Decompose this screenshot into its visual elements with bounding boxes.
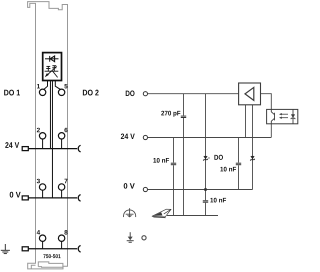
light arrows <box>279 113 288 119</box>
terminal 3 <box>39 184 45 190</box>
wire 24V line <box>148 137 272 139</box>
label DO <box>126 91 130 96</box>
value label 10 nF (C4) <box>210 198 213 203</box>
pin number 1 <box>37 84 40 88</box>
wire amp left supply <box>245 105 247 138</box>
optocoupler U3 box <box>267 109 298 123</box>
LED pair indicator (inside box bottom) <box>45 66 59 78</box>
label 0 V <box>124 183 128 189</box>
rail contact arrow (power jumper) <box>152 209 171 218</box>
pin number 5 <box>64 84 67 88</box>
label DO <box>214 155 218 160</box>
terminal 2 <box>39 133 45 139</box>
wire stub t7 <box>61 190 63 198</box>
0V field row <box>22 195 80 202</box>
wire: internal to 24V row <box>49 81 51 149</box>
terminal rect 24V <box>22 147 28 151</box>
wire: internal to 0V row <box>51 81 53 198</box>
pin number 3 <box>37 179 40 184</box>
wire rail A (24V to earth, 10nF) <box>173 138 175 216</box>
terminal 24V circle <box>143 135 147 139</box>
pin number 4 <box>37 230 40 234</box>
terminal 8 <box>58 235 64 241</box>
value label 10 nF (C3) <box>220 167 223 172</box>
wire stub t8 <box>61 241 63 248</box>
wire: foot left notch <box>31 265 35 269</box>
wire rail C (DO to earth via zener and 10nF) <box>205 94 207 216</box>
pin number 7 <box>64 179 67 183</box>
wire opto to 24V <box>270 124 272 138</box>
label 0 V <box>10 192 14 198</box>
legend: rail arrow symbol <box>127 232 134 242</box>
text labels as paths <box>4 84 236 258</box>
terminal 4 <box>39 235 45 241</box>
zener diode Z1 (rail C) <box>203 156 209 160</box>
op-amp U2 box <box>239 83 261 105</box>
pin number 6 <box>64 128 67 133</box>
capacitor C2 10nF plates <box>171 162 176 164</box>
clamp contact 0V <box>78 195 80 202</box>
wire earth rail <box>167 215 218 217</box>
part number 750_501 <box>43 254 45 258</box>
pin number 2 <box>37 128 40 132</box>
terminal 5 <box>58 89 64 95</box>
terminal 0V circle <box>143 187 147 191</box>
functional earth symbol (circle arc) <box>123 208 135 217</box>
component box U1 (suppressor diode + LEDs) <box>43 53 62 81</box>
capacitor C3 10nF plates <box>236 162 241 164</box>
LED arrowhead <box>45 73 49 77</box>
opto LED <box>291 109 296 123</box>
wire stub t4 <box>42 241 44 248</box>
wire earth row <box>28 248 77 250</box>
wire stub t2 <box>42 139 44 149</box>
terminal 1 <box>39 89 45 95</box>
diode D1 (suppressor, inside box top) <box>45 56 59 62</box>
wire DO line <box>148 93 239 95</box>
pin to terminal 5 <box>55 81 60 90</box>
wire rail D (24V to 0V, 10nF) <box>238 138 240 190</box>
wire rail E (amp to 24V to 0V via zener) <box>252 105 254 190</box>
terminal 6 <box>58 133 64 139</box>
pin number 8 <box>64 230 67 235</box>
wire 0V row <box>28 197 77 199</box>
module outline (grey housing contour) <box>28 2 68 269</box>
terminal circles column <box>39 89 64 241</box>
terminal DO circle <box>143 92 147 96</box>
pin to terminal 1 <box>44 81 48 90</box>
wire: foot inner latch step <box>38 262 63 267</box>
clamp contact earth <box>78 246 80 253</box>
label 24 V <box>5 142 8 148</box>
terminal rect earth <box>22 247 28 251</box>
label 24 V <box>121 134 124 139</box>
wire 24V row <box>28 148 77 150</box>
ground symbol (left of earth row) <box>1 244 10 254</box>
phototransistor <box>271 109 274 123</box>
wire amp output to opto <box>261 94 272 110</box>
legend: small circle <box>142 236 146 240</box>
value label 270 pF (C1) <box>161 111 164 116</box>
zener diode Z2 (rail E) <box>250 156 255 160</box>
capacitor C4 10nF plates <box>203 200 208 202</box>
wire stub t3 <box>42 190 44 198</box>
stubs terminals to rows <box>43 139 62 249</box>
label DO 2 <box>83 90 87 96</box>
clamp contact 24V <box>78 145 80 152</box>
terminal rect 0V <box>22 196 28 200</box>
terminal 7 <box>58 184 64 190</box>
wire rail B (DO to earth, 270pF) <box>183 94 185 216</box>
op-amp triangle <box>245 87 254 100</box>
label DO 1 <box>4 90 8 96</box>
wire stub t6 <box>61 139 63 149</box>
24V field row <box>22 145 80 152</box>
wire 0V line <box>148 189 253 191</box>
capacitor C1 270pF plates <box>181 115 186 117</box>
wire: outer housing contour <box>28 2 68 269</box>
earth field row <box>22 246 80 253</box>
pin stubs from box <box>44 81 61 198</box>
value label 10 nF (C2) <box>153 158 156 163</box>
junction dot 0V/rail C <box>204 188 207 191</box>
